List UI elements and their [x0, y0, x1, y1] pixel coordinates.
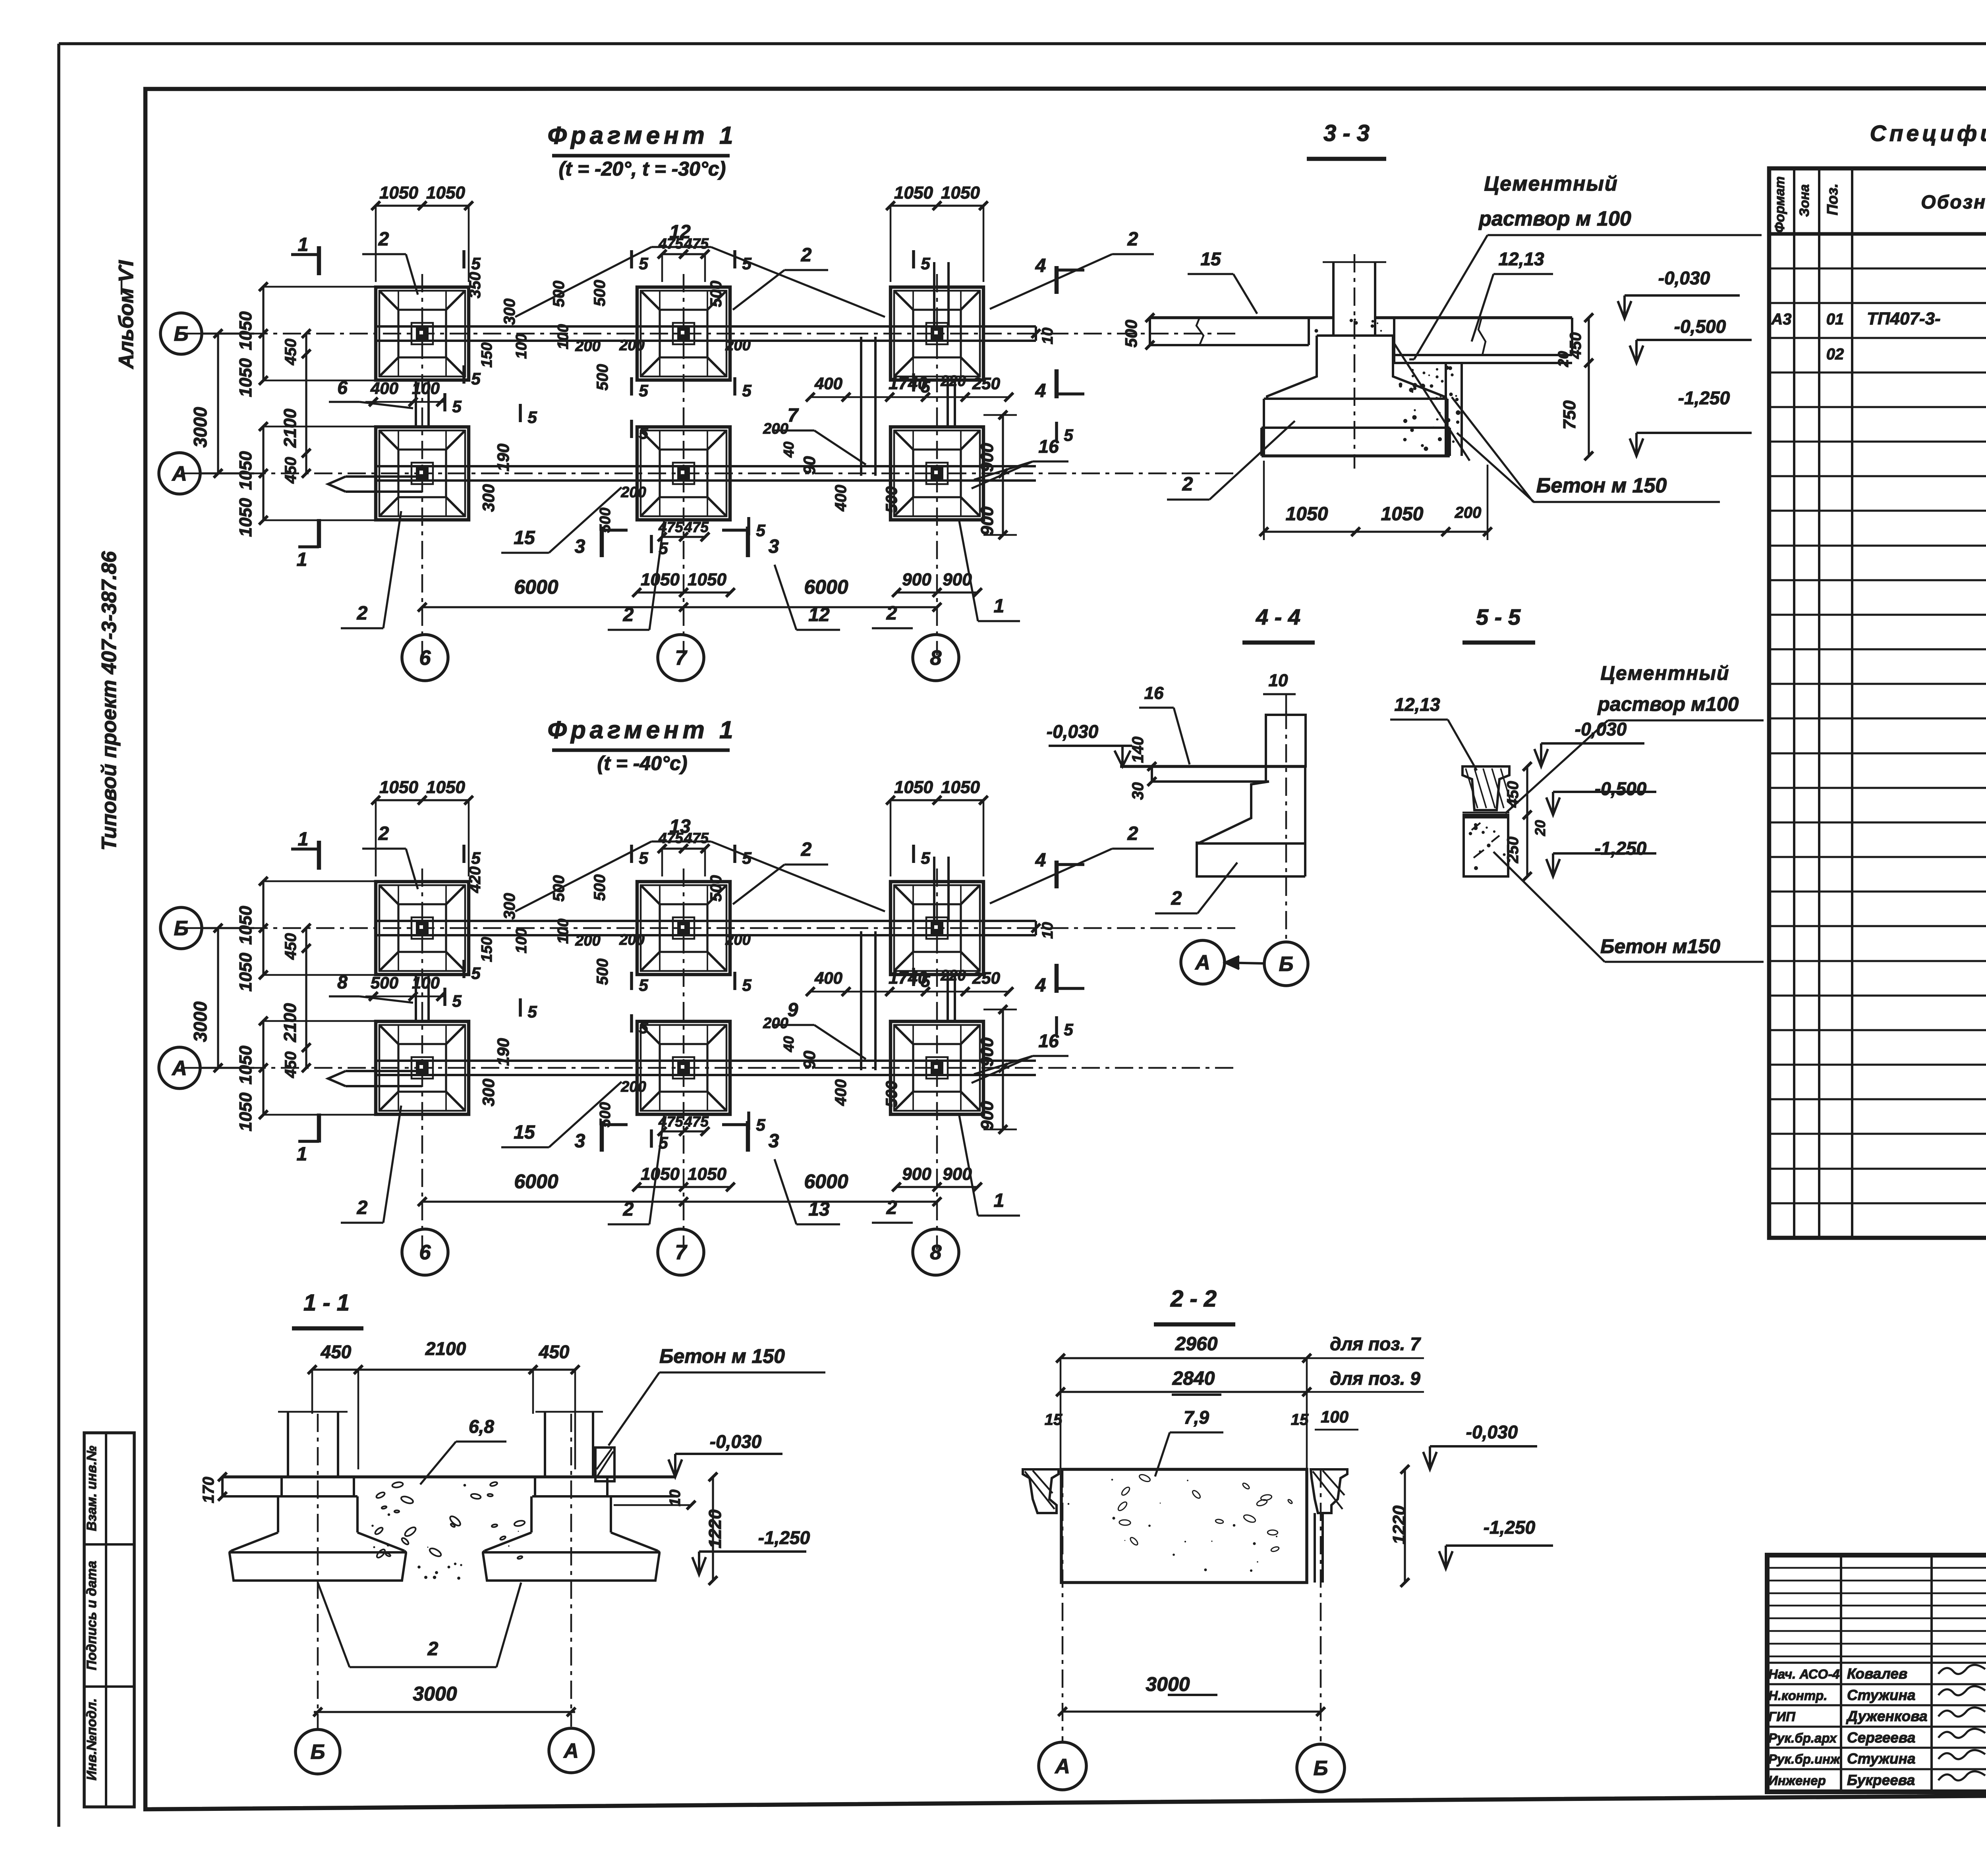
svg-text:1: 1 — [994, 596, 1005, 617]
section 2-2 labels 7,9 15 100 — [1045, 1407, 1358, 1476]
svg-text:12: 12 — [808, 604, 830, 625]
svg-text:6: 6 — [419, 647, 431, 670]
label 12 with leaders — [515, 222, 885, 317]
svg-text:5 - 5: 5 - 5 — [1476, 604, 1521, 629]
section mark 3 left — [575, 1121, 628, 1152]
svg-text:8: 8 — [930, 647, 942, 670]
svg-text:12: 12 — [669, 222, 691, 243]
label 15 lower — [501, 1082, 622, 1147]
dim row 400-1740-220-250 — [806, 967, 1013, 996]
section 1-1 right dims — [614, 1473, 725, 1585]
small dims A-axis area — [479, 1015, 900, 1127]
section 5-5 concrete block — [1464, 817, 1508, 876]
svg-text:3 - 3: 3 - 3 — [1323, 120, 1370, 146]
grid circle 7 — [658, 1229, 704, 1275]
svg-text:500: 500 — [550, 875, 568, 902]
svg-text:5: 5 — [756, 1116, 765, 1134]
pipe above col 8 foundation — [934, 857, 949, 920]
svg-text:1050: 1050 — [688, 570, 726, 589]
foundation pad top col 7 — [637, 882, 730, 975]
svg-text:450: 450 — [282, 457, 299, 484]
svg-text:2100: 2100 — [280, 409, 300, 448]
section 4-4 foundation — [1197, 766, 1305, 876]
section 4-4 label 2 — [1155, 863, 1237, 913]
svg-text:500: 500 — [550, 281, 568, 307]
svg-text:Инв.№подл.: Инв.№подл. — [84, 1698, 99, 1780]
small dims below col6 — [365, 379, 445, 406]
svg-text:(t = -20°, t = -30°с): (t = -20°, t = -30°с) — [559, 158, 726, 180]
svg-text:1050: 1050 — [426, 183, 465, 203]
label 8 mid left — [329, 972, 413, 1003]
axis line A — [181, 1067, 1237, 1069]
svg-text:3: 3 — [769, 536, 779, 557]
svg-text:1: 1 — [298, 234, 309, 255]
vertical beam between rows at col 6 — [416, 975, 429, 1021]
svg-text:200: 200 — [763, 1015, 788, 1032]
section 3-3 elevation -0030 — [1618, 268, 1740, 318]
svg-text:2: 2 — [427, 1639, 439, 1660]
svg-text:5: 5 — [756, 521, 765, 540]
svg-text:30: 30 — [1129, 782, 1147, 800]
svg-text:А: А — [171, 462, 187, 485]
svg-text:2: 2 — [1171, 888, 1182, 909]
svg-text:А: А — [563, 1739, 579, 1762]
svg-text:900: 900 — [978, 443, 997, 472]
svg-text:01: 01 — [1826, 311, 1844, 328]
section 4-4 axis — [1285, 711, 1287, 942]
dimension chain 450-2100-450 — [280, 924, 311, 1078]
svg-text:7: 7 — [675, 1241, 688, 1264]
section 5-5 mortar line — [1462, 813, 1509, 815]
grid circle 6 — [402, 635, 448, 681]
dimension 900 900 below col8 — [892, 1164, 982, 1191]
svg-text:Поз.: Поз. — [1824, 183, 1841, 216]
section 4-4 column — [1266, 715, 1306, 782]
svg-text:Зона: Зона — [1797, 184, 1812, 217]
svg-text:15: 15 — [514, 527, 535, 548]
svg-text:4 - 4: 4 - 4 — [1256, 604, 1300, 629]
section mark 4 lower — [1035, 369, 1084, 401]
label 10 right end — [1032, 922, 1056, 939]
svg-text:-0,500: -0,500 — [1595, 778, 1647, 799]
svg-text:-1,250: -1,250 — [1595, 838, 1647, 859]
section 3-3 label 2 — [1167, 421, 1295, 500]
svg-text:2: 2 — [1182, 474, 1193, 495]
foundation pad bottom col 6 — [376, 427, 469, 520]
svg-text:3000: 3000 — [190, 407, 211, 448]
section mark 1 bottom — [297, 1114, 319, 1165]
svg-text:-1,250: -1,250 — [1484, 1517, 1536, 1538]
foundation pad top col 6 — [376, 287, 469, 380]
section 3-3 column — [1323, 262, 1386, 336]
section 3-3 label cement mortar — [1409, 172, 1762, 359]
small dims below col6 — [365, 973, 445, 1001]
svg-text:300: 300 — [501, 299, 518, 325]
plan fragment title — [548, 122, 737, 180]
label 12 lower right — [775, 565, 840, 630]
svg-text:200: 200 — [575, 338, 600, 355]
label 2 bottom col6 — [341, 511, 401, 628]
svg-text:1: 1 — [297, 549, 307, 570]
svg-text:100: 100 — [513, 928, 530, 953]
svg-text:450: 450 — [282, 339, 299, 366]
section 3-3 floor slab left — [1150, 318, 1394, 345]
svg-text:5: 5 — [471, 254, 481, 273]
svg-text:420: 420 — [466, 867, 484, 894]
svg-text:1050: 1050 — [426, 778, 465, 797]
section 1-1 axes — [296, 1414, 593, 1774]
dimension 1050 1050 above col6 — [371, 778, 473, 876]
svg-text:Цементный: Цементный — [1484, 172, 1618, 195]
section 3-3 label 12,13 — [1472, 249, 1553, 342]
svg-text:1050: 1050 — [236, 451, 255, 490]
svg-text:5: 5 — [921, 254, 930, 273]
svg-text:200: 200 — [620, 484, 646, 501]
section 2-2 right beam seat — [1311, 1469, 1347, 1583]
svg-text:4: 4 — [1035, 975, 1046, 996]
axis circle A — [159, 1047, 254, 1089]
svg-text:200: 200 — [619, 337, 644, 354]
spec row foundation — [1771, 309, 1986, 328]
svg-text:1050: 1050 — [688, 1164, 726, 1184]
dimension 1050 1050 above col6 — [371, 183, 473, 282]
svg-text:2: 2 — [801, 245, 812, 266]
svg-text:Бетон м 150: Бетон м 150 — [659, 1345, 785, 1367]
svg-text:02: 02 — [1826, 345, 1844, 363]
svg-text:1: 1 — [994, 1190, 1005, 1211]
svg-text:3: 3 — [575, 536, 585, 557]
svg-text:15: 15 — [1045, 1411, 1063, 1428]
svg-text:2: 2 — [357, 1197, 368, 1218]
svg-text:2840: 2840 — [1172, 1368, 1215, 1389]
svg-text:Б: Б — [174, 917, 189, 940]
label 7/9 long beam — [773, 405, 866, 465]
dimension 475 475 below col7 — [658, 519, 709, 541]
grid dimension 6000+6000 — [418, 1170, 941, 1206]
marks 5 — [445, 250, 1073, 558]
svg-text:500: 500 — [1122, 320, 1140, 347]
section 2-2 elevation -1250 — [1439, 1517, 1553, 1569]
svg-text:5: 5 — [639, 424, 648, 442]
label 6 mid left — [329, 377, 413, 408]
svg-text:ТП407-3-: ТП407-3- — [1867, 309, 1941, 328]
section 1-1 left column — [278, 1412, 348, 1478]
svg-text:Инженер: Инженер — [1768, 1773, 1826, 1788]
svg-text:5: 5 — [452, 992, 462, 1010]
section mark 1 top — [291, 234, 319, 275]
svg-text:1050: 1050 — [236, 953, 255, 992]
svg-text:500: 500 — [883, 486, 900, 513]
svg-text:1050: 1050 — [236, 358, 255, 397]
label 7/9 long beam — [773, 1000, 866, 1059]
section 5-5 label 12,13 — [1390, 694, 1477, 770]
section 1-1 dim 170 — [200, 1473, 227, 1503]
section 4-4 labels — [1129, 671, 1296, 800]
svg-text:6: 6 — [337, 377, 348, 398]
section 2-2 monolithic block — [1061, 1469, 1307, 1583]
section 5-5 elevation -0500 — [1546, 778, 1656, 815]
svg-text:2 - 2: 2 - 2 — [1170, 1286, 1217, 1312]
svg-text:6000: 6000 — [804, 576, 848, 598]
svg-text:7: 7 — [788, 405, 799, 426]
section 4-4 title — [1242, 604, 1315, 643]
label 15 lower — [501, 487, 622, 553]
svg-text:5: 5 — [742, 849, 752, 867]
dimension 3000 between axes — [190, 329, 222, 478]
section 1-1 label 2 — [318, 1583, 521, 1667]
svg-text:40: 40 — [780, 1036, 797, 1052]
grid circle 6 — [402, 1229, 448, 1275]
section 3-3 floor slab right — [1394, 318, 1572, 355]
svg-text:13: 13 — [808, 1199, 830, 1220]
svg-text:1050: 1050 — [236, 311, 255, 350]
dimension 900 900 right of col8 — [978, 1005, 1017, 1134]
svg-text:Ковалев: Ковалев — [1847, 1666, 1907, 1682]
section 1-1 bottom dim 3000 — [313, 1683, 576, 1716]
svg-text:Дуженкова: Дуженкова — [1846, 1708, 1928, 1724]
svg-text:750: 750 — [1560, 400, 1579, 430]
label 1 right — [959, 521, 1020, 621]
svg-text:6000: 6000 — [514, 576, 558, 598]
svg-text:5: 5 — [921, 849, 930, 867]
svg-text:4: 4 — [1035, 380, 1046, 401]
spec row plate — [1826, 344, 1986, 363]
section 4-4 axis circles A-B — [1181, 940, 1308, 986]
svg-text:2: 2 — [1127, 823, 1138, 844]
svg-text:5: 5 — [639, 1018, 648, 1037]
svg-text:Рук.бр.инж: Рук.бр.инж — [1768, 1752, 1841, 1766]
svg-text:6: 6 — [419, 1241, 431, 1264]
svg-text:Взам. инв.№: Взам. инв.№ — [84, 1446, 99, 1531]
svg-text:150: 150 — [479, 937, 495, 962]
svg-text:5: 5 — [471, 369, 481, 388]
svg-text:1050: 1050 — [236, 906, 255, 945]
svg-text:5: 5 — [452, 397, 462, 416]
svg-text:Подпись и дата: Подпись и дата — [84, 1561, 99, 1670]
svg-text:500: 500 — [591, 874, 609, 901]
svg-text:Сергеева: Сергеева — [1847, 1729, 1915, 1746]
section 2-2 dim 2840 — [1056, 1358, 1424, 1469]
svg-text:500: 500 — [597, 1102, 614, 1127]
section 1-1 top dims 450 2100 450 — [308, 1338, 580, 1469]
foundation beam along axis B — [376, 921, 1036, 935]
svg-text:200: 200 — [763, 421, 788, 437]
svg-text:1: 1 — [297, 1144, 307, 1165]
svg-text:Бетон м150: Бетон м150 — [1600, 935, 1720, 957]
svg-text:500: 500 — [591, 280, 609, 307]
section mark 3 right — [722, 1121, 779, 1152]
svg-text:2: 2 — [801, 839, 812, 860]
svg-text:Стужина: Стужина — [1847, 1751, 1916, 1767]
section mark 3 left — [575, 527, 628, 557]
section 3-3 mortar joint under right slab — [1394, 355, 1572, 363]
svg-text:900: 900 — [943, 1164, 972, 1184]
svg-text:6000: 6000 — [514, 1170, 558, 1193]
svg-text:400: 400 — [814, 969, 842, 987]
svg-text:3: 3 — [769, 1131, 779, 1152]
svg-text:40: 40 — [780, 442, 797, 458]
svg-text:12,13: 12,13 — [1498, 249, 1544, 269]
svg-text:Цементный: Цементный — [1600, 662, 1729, 684]
svg-text:для поз. 9: для поз. 9 — [1330, 1368, 1420, 1389]
svg-text:1 - 1: 1 - 1 — [303, 1290, 350, 1316]
svg-text:2: 2 — [1127, 229, 1138, 250]
plan fragment title — [548, 716, 737, 774]
svg-text:5: 5 — [1064, 426, 1073, 444]
section 3-3 column axis — [1354, 254, 1356, 469]
svg-text:900: 900 — [978, 506, 997, 536]
section 3-3 elevation -1250 — [1630, 388, 1752, 456]
svg-text:Букреева: Букреева — [1847, 1772, 1915, 1788]
column axis 8 — [936, 869, 938, 1250]
svg-text:170: 170 — [200, 1477, 217, 1504]
svg-text:2: 2 — [886, 1197, 897, 1218]
svg-text:15: 15 — [1291, 1411, 1309, 1428]
svg-text:400: 400 — [370, 379, 398, 398]
svg-text:Формат: Формат — [1772, 176, 1787, 233]
section mark 4 upper — [1035, 255, 1084, 294]
label 16 right — [972, 436, 1068, 488]
section 5-5 label cement — [1505, 662, 1764, 813]
pipe above col 8 foundation — [934, 262, 949, 326]
foundation pad top col 8 — [891, 882, 983, 975]
left bottom strip table — [84, 1433, 134, 1807]
svg-text:Типовой проект 407-3-387.86: Типовой проект 407-3-387.86 — [98, 551, 121, 851]
svg-text:20: 20 — [1555, 351, 1571, 367]
column axis 7 — [683, 869, 685, 1250]
label 2 bottom col6 — [341, 1106, 401, 1223]
section 5-5 title — [1462, 604, 1535, 643]
svg-text:20: 20 — [1532, 820, 1548, 836]
svg-text:900: 900 — [902, 1164, 931, 1184]
svg-text:-0,500: -0,500 — [1674, 316, 1726, 337]
dimension 900 900 below col8 — [892, 570, 982, 597]
vertical beam near col 8 — [861, 931, 875, 1070]
section 2-2 title — [1154, 1286, 1235, 1324]
svg-text:900: 900 — [978, 1037, 997, 1067]
axis line B — [183, 333, 1237, 335]
svg-text:Бетон м 150: Бетон м 150 — [1536, 474, 1667, 497]
grid circle 7 — [658, 635, 704, 681]
section mark 1 top — [291, 829, 319, 870]
svg-text:-1,250: -1,250 — [758, 1527, 810, 1548]
svg-text:Б: Б — [311, 1741, 325, 1764]
vertical beam between rows at col 8 — [948, 380, 955, 427]
section 1-1 elevation -1250 — [692, 1527, 810, 1575]
svg-text:1050: 1050 — [941, 183, 980, 203]
svg-text:Нач. АСО-4: Нач. АСО-4 — [1768, 1667, 1840, 1681]
svg-text:Рук.бр.арх: Рук.бр.арх — [1768, 1731, 1837, 1745]
section mark 3 right — [722, 527, 779, 557]
svg-text:-0,030: -0,030 — [710, 1431, 762, 1452]
svg-text:4: 4 — [1035, 255, 1046, 276]
svg-text:90: 90 — [800, 1051, 819, 1069]
svg-text:250: 250 — [1504, 837, 1522, 864]
label 10 right end — [1032, 328, 1056, 344]
svg-text:500: 500 — [597, 508, 614, 533]
svg-text:Б: Б — [1279, 953, 1294, 976]
label 2 top col7 — [733, 839, 828, 904]
svg-text:400: 400 — [814, 374, 842, 393]
svg-text:220: 220 — [940, 373, 966, 390]
dimension chain 1050x4 left — [236, 282, 381, 537]
label 2 top col6 — [362, 229, 418, 295]
title block signature grid — [1767, 1555, 1986, 1792]
section 3-3 right dims 450 20 750 — [1555, 313, 1593, 460]
foundation beam along axis B — [376, 326, 1036, 341]
svg-text:500: 500 — [371, 973, 398, 992]
svg-text:3: 3 — [575, 1131, 585, 1152]
svg-text:5: 5 — [921, 972, 930, 990]
column axis 6 — [421, 274, 423, 655]
section mark 1 bottom — [297, 519, 319, 570]
svg-text:1050: 1050 — [236, 498, 255, 537]
svg-text:15: 15 — [514, 1122, 535, 1143]
svg-text:900: 900 — [943, 570, 972, 589]
section 3-3 concrete fill right — [1393, 342, 1470, 461]
svg-text:100: 100 — [513, 334, 530, 359]
svg-text:А: А — [171, 1057, 187, 1080]
svg-text:500: 500 — [707, 875, 725, 902]
svg-text:900: 900 — [902, 570, 931, 589]
svg-text:1050: 1050 — [894, 183, 933, 203]
label 2 bottom col8 — [872, 1197, 913, 1223]
section 2-2 right dim 1220 — [1389, 1465, 1409, 1587]
svg-text:15: 15 — [1200, 249, 1221, 269]
svg-text:190: 190 — [494, 1038, 512, 1066]
svg-text:А3: А3 — [1771, 311, 1791, 328]
svg-text:6000: 6000 — [804, 1170, 848, 1193]
svg-text:300: 300 — [479, 1079, 498, 1106]
svg-text:400: 400 — [832, 1079, 850, 1106]
left margin text Album — [115, 260, 138, 369]
svg-text:2100: 2100 — [280, 1003, 300, 1042]
svg-text:раствор м100: раствор м100 — [1597, 693, 1739, 715]
foundation pad top col 7 — [637, 287, 730, 380]
section mark 4 upper — [1035, 850, 1084, 888]
svg-text:10: 10 — [667, 1490, 684, 1506]
specification table headers — [1772, 176, 1986, 233]
svg-text:200: 200 — [619, 932, 644, 948]
svg-text:350: 350 — [466, 272, 484, 299]
svg-text:200: 200 — [620, 1079, 646, 1095]
svg-text:5: 5 — [742, 254, 752, 273]
svg-text:100: 100 — [1321, 1407, 1348, 1426]
svg-text:190: 190 — [494, 444, 512, 471]
svg-text:7,9: 7,9 — [1184, 1407, 1209, 1428]
left margin text project number — [98, 551, 121, 851]
svg-text:Б: Б — [174, 322, 189, 345]
svg-text:Н.контр.: Н.контр. — [1768, 1688, 1827, 1703]
section 1-1 label 6,8 — [420, 1416, 506, 1484]
svg-text:5: 5 — [1064, 1020, 1073, 1039]
dimension 3000 between axes — [190, 924, 222, 1072]
small dims col7 area — [591, 874, 751, 985]
svg-text:2: 2 — [886, 603, 897, 624]
section 1-1 elevation -0030 — [668, 1431, 782, 1477]
svg-text:7: 7 — [675, 647, 688, 670]
svg-text:2: 2 — [623, 604, 634, 625]
grid dimension 6000+6000 — [418, 576, 941, 612]
svg-text:для поз. 7: для поз. 7 — [1330, 1334, 1421, 1354]
svg-text:5: 5 — [742, 976, 752, 994]
svg-text:250: 250 — [972, 374, 1000, 393]
svg-text:220: 220 — [940, 967, 966, 984]
svg-text:1050: 1050 — [941, 778, 980, 797]
svg-text:5: 5 — [471, 849, 481, 867]
svg-text:1050: 1050 — [641, 570, 680, 589]
svg-text:300: 300 — [479, 484, 498, 512]
